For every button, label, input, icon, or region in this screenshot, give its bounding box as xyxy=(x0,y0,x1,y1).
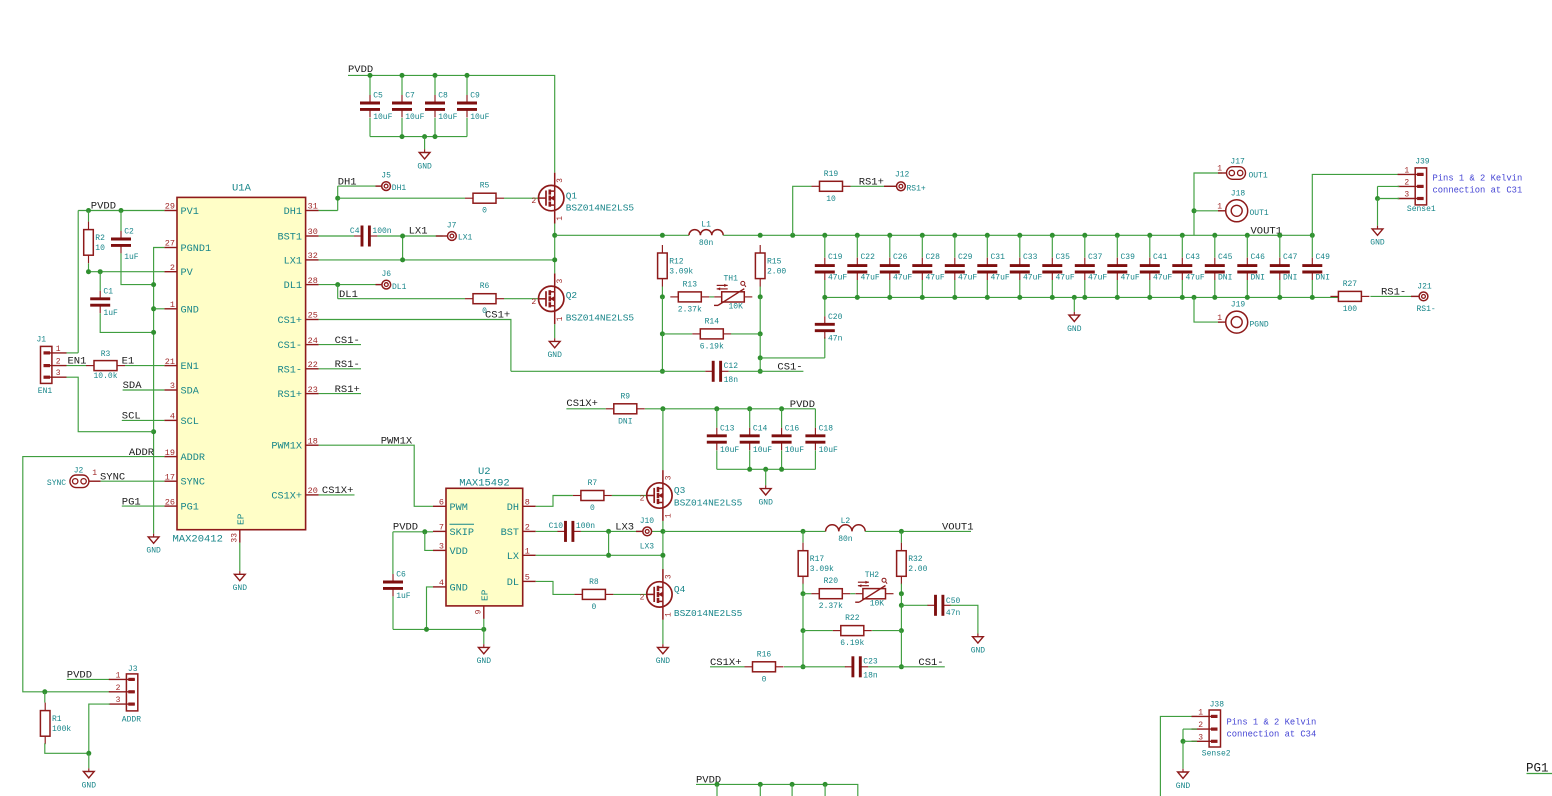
capacitor C39 47uF xyxy=(1107,253,1140,283)
wire R20 to TH2 xyxy=(850,593,855,595)
svg-text:OUT1: OUT1 xyxy=(1249,171,1268,180)
svg-text:1: 1 xyxy=(556,316,565,321)
wire PG1 stub xyxy=(122,505,165,507)
resistor R14 6.19k xyxy=(692,317,731,351)
wire C28 top lead xyxy=(921,235,923,257)
wire Q1 source to Q2 drain (switch node) xyxy=(554,224,556,274)
wire LX1 node to J7 xyxy=(403,235,443,237)
wire PVDD down to J1 pin1 xyxy=(77,211,79,353)
svg-text:R13: R13 xyxy=(683,280,698,289)
svg-text:J2: J2 xyxy=(74,467,84,476)
wire Q2 source to ground xyxy=(554,324,556,338)
junction R2 top xyxy=(86,208,91,213)
wire C16 top lead xyxy=(781,409,783,428)
wire PVDD to U2 pin7 xyxy=(393,531,433,533)
junction C47 top xyxy=(1277,233,1282,238)
svg-text:2: 2 xyxy=(56,358,61,367)
wire J39 pin2 riser xyxy=(1377,186,1379,198)
wire R32 to TH2 row xyxy=(900,584,902,594)
svg-text:0: 0 xyxy=(590,504,595,513)
ground below R1/J3 xyxy=(82,768,97,790)
svg-text:2: 2 xyxy=(640,593,645,602)
wire R2 top lead xyxy=(88,211,90,222)
wire C9 bottom lead xyxy=(466,118,468,137)
capacitor C19 47uF xyxy=(815,253,848,283)
svg-text:TH2: TH2 xyxy=(865,571,880,580)
wire C1 top lead xyxy=(99,272,101,291)
wire R32 top lead xyxy=(900,531,902,542)
wire C16 bottom lead xyxy=(781,450,783,469)
svg-text:C10: C10 xyxy=(549,522,564,531)
connector J19 pad xyxy=(1226,311,1248,333)
svg-text:3: 3 xyxy=(1404,191,1409,200)
wire U2 gnd rail xyxy=(393,628,484,630)
resistor R6 0 xyxy=(465,282,504,316)
svg-text:2: 2 xyxy=(1404,178,1409,187)
wire C4 to LX1 node xyxy=(377,235,402,237)
svg-text:GND: GND xyxy=(971,647,986,656)
wire PG1 stub (bottom right) xyxy=(1527,773,1552,775)
wire R27 to J21 xyxy=(1370,295,1418,297)
svg-text:80n: 80n xyxy=(838,535,853,544)
connector J21 pad xyxy=(1419,292,1428,301)
svg-text:U2: U2 xyxy=(478,466,491,478)
resistor R12 3.09k xyxy=(658,245,694,287)
junction xyxy=(422,134,427,139)
wire RS1- stub xyxy=(319,368,361,370)
wire J38 pin3 xyxy=(1183,740,1197,742)
wire bottom stub xyxy=(824,784,826,796)
junction xyxy=(855,295,860,300)
junction xyxy=(747,467,752,472)
svg-text:VDD: VDD xyxy=(450,547,468,558)
wire VOUT1 top rail xyxy=(825,234,1313,236)
wire C20 bottom to R15 col xyxy=(760,357,825,359)
wire C1 bottom to PGND1 bus xyxy=(100,313,153,332)
svg-text:5: 5 xyxy=(525,573,530,583)
svg-text:J10: J10 xyxy=(640,517,655,526)
svg-text:DH: DH xyxy=(507,503,519,514)
svg-text:BSZ014NE2LS5: BSZ014NE2LS5 xyxy=(566,313,635,324)
wire C45 top lead xyxy=(1214,235,1216,257)
wire C47 top lead xyxy=(1279,235,1281,257)
svg-text:1: 1 xyxy=(1404,166,1409,175)
svg-text:GND: GND xyxy=(417,162,432,171)
capacitor C22 47uF xyxy=(847,253,880,283)
junction C23 left xyxy=(801,664,806,669)
svg-text:4: 4 xyxy=(439,578,444,588)
resistor R16 0 xyxy=(745,650,784,684)
resistor R20 2.37k xyxy=(811,577,850,611)
wire C5..C9 bottom rail xyxy=(370,136,467,138)
svg-text:GND: GND xyxy=(547,351,562,360)
svg-text:DH1: DH1 xyxy=(284,207,302,218)
svg-text:DNI: DNI xyxy=(1218,274,1232,283)
capacitor C8 10uF xyxy=(425,92,458,123)
wire C13 bottom lead xyxy=(716,450,718,469)
svg-text:30: 30 xyxy=(308,227,318,237)
capacitor C7 10uF xyxy=(392,92,425,123)
svg-text:6.19k: 6.19k xyxy=(840,639,864,648)
wire U2 LX to switch node 2 xyxy=(536,554,663,556)
wire CS1- stub xyxy=(319,344,361,346)
svg-text:C1: C1 xyxy=(103,287,113,296)
wire DH1 label to J5 xyxy=(338,185,382,187)
svg-text:29: 29 xyxy=(165,202,175,212)
capacitor C14 10uF xyxy=(740,424,773,455)
wire PVDD to J3 pin1 xyxy=(67,678,110,680)
connector J17 pads xyxy=(1227,167,1246,180)
wire R32 col C50-R22 xyxy=(900,605,902,630)
svg-text:RS1-: RS1- xyxy=(278,365,302,376)
wire C8 top lead xyxy=(434,75,436,95)
junction xyxy=(1180,295,1185,300)
svg-text:1: 1 xyxy=(664,612,673,617)
svg-text:20: 20 xyxy=(308,486,318,496)
wire C35 top lead xyxy=(1051,235,1053,257)
junction Q3 drain tee xyxy=(660,406,665,411)
svg-text:R22: R22 xyxy=(845,614,860,623)
wire C39 top lead xyxy=(1116,235,1118,257)
svg-text:R27: R27 xyxy=(1343,280,1358,289)
capacitor C12 18n xyxy=(705,361,738,385)
svg-text:Q2: Q2 xyxy=(566,290,578,301)
svg-text:C4: C4 xyxy=(350,227,360,236)
svg-text:J3: J3 xyxy=(128,665,138,674)
svg-text:GND: GND xyxy=(1176,782,1191,791)
wire C28 bottom lead xyxy=(921,280,923,297)
capacitor C6 1uF xyxy=(383,571,411,602)
svg-text:R20: R20 xyxy=(824,577,839,586)
wire J18 red stub xyxy=(1218,210,1226,212)
junction xyxy=(920,295,925,300)
connector J38 Sense2 xyxy=(1192,700,1231,758)
svg-text:3: 3 xyxy=(664,574,673,579)
svg-text:R14: R14 xyxy=(705,317,720,326)
svg-text:47uF: 47uF xyxy=(991,274,1010,283)
svg-text:1: 1 xyxy=(1198,708,1203,717)
svg-text:18: 18 xyxy=(308,436,318,446)
svg-text:C18: C18 xyxy=(819,424,834,433)
svg-text:18n: 18n xyxy=(863,671,878,680)
wire SYNC to U1A pin17 xyxy=(101,480,165,482)
svg-text:C8: C8 xyxy=(438,92,448,101)
transistor Q4 BSZ014NE2LS5 xyxy=(640,569,743,620)
svg-text:47n: 47n xyxy=(946,609,961,618)
inductor L2 80n xyxy=(826,517,866,544)
svg-text:2.00: 2.00 xyxy=(767,268,786,277)
svg-text:47uF: 47uF xyxy=(1056,274,1075,283)
junction C39 top xyxy=(1115,233,1120,238)
svg-text:24: 24 xyxy=(308,336,318,346)
wire J39 gnd stem xyxy=(1377,199,1379,226)
svg-text:3: 3 xyxy=(170,381,175,391)
transistor Q1 BSZ014NE2LS5 xyxy=(531,173,634,224)
junction R13 left xyxy=(660,294,665,299)
wire R22 left xyxy=(803,630,833,632)
ground below capacitor bank xyxy=(1067,312,1082,334)
wire C49 bottom lead xyxy=(1311,280,1313,297)
wire C49 top lead xyxy=(1311,235,1313,257)
svg-text:MAX15492: MAX15492 xyxy=(459,477,509,489)
svg-text:LX: LX xyxy=(507,552,519,563)
svg-text:GND: GND xyxy=(1370,239,1385,248)
svg-text:10uF: 10uF xyxy=(470,113,489,122)
junction xyxy=(433,134,438,139)
capacitor C29 47uF xyxy=(945,253,978,283)
svg-text:R9: R9 xyxy=(620,392,630,401)
wire C33 bottom lead xyxy=(1019,280,1021,297)
svg-text:RS1+: RS1+ xyxy=(278,390,302,401)
junction bus C2 xyxy=(151,282,156,287)
wire R32 col to C50 tee xyxy=(900,594,902,606)
svg-text:SCL: SCL xyxy=(122,411,141,423)
wire C22 bottom lead xyxy=(856,280,858,297)
svg-text:1uF: 1uF xyxy=(396,592,411,601)
junction PVDD rail xyxy=(433,73,438,78)
svg-text:R8: R8 xyxy=(589,578,599,587)
svg-text:R3: R3 xyxy=(101,350,111,359)
wire C12 to CS1- label xyxy=(729,370,804,372)
junction xyxy=(715,782,720,787)
svg-text:100: 100 xyxy=(1343,305,1358,314)
wire L2 to VOUT1 label xyxy=(865,530,971,532)
svg-text:R1: R1 xyxy=(52,715,62,724)
junction C46 top xyxy=(1245,233,1250,238)
op-amp U1A MAX20412 controller xyxy=(164,183,318,546)
wire C26 top lead xyxy=(889,235,891,257)
svg-text:C28: C28 xyxy=(926,253,941,262)
wire R12 col R13-R14 xyxy=(661,297,663,334)
wire VOUT bottom rail xyxy=(825,296,1339,298)
svg-text:C37: C37 xyxy=(1088,253,1103,262)
svg-text:26: 26 xyxy=(165,497,175,507)
junction C37 top xyxy=(1082,233,1087,238)
svg-text:47uF: 47uF xyxy=(1186,274,1205,283)
junction gnd rail a xyxy=(424,627,429,632)
wire GND bus to symbol xyxy=(153,432,155,534)
wire C19 top lead xyxy=(824,235,826,257)
wire C35 bottom lead xyxy=(1051,280,1053,297)
capacitor C5 10uF xyxy=(360,92,393,123)
svg-text:GND: GND xyxy=(450,583,468,594)
svg-text:C50: C50 xyxy=(946,597,961,606)
connector J39 Sense1 xyxy=(1398,158,1436,214)
ground below C50 xyxy=(971,634,986,656)
svg-text:27: 27 xyxy=(165,239,175,249)
svg-text:L2: L2 xyxy=(841,517,851,526)
svg-text:C45: C45 xyxy=(1218,253,1233,262)
wire J38 pin2 xyxy=(1183,728,1197,730)
wire C41 bottom lead xyxy=(1149,280,1151,297)
svg-text:10uF: 10uF xyxy=(753,446,772,455)
svg-text:100n: 100n xyxy=(372,227,391,236)
svg-text:21: 21 xyxy=(165,357,175,367)
wire C18 bottom lead xyxy=(814,450,816,469)
svg-text:C23: C23 xyxy=(863,658,878,667)
junction xyxy=(952,295,957,300)
resistor R9 DNI xyxy=(606,392,645,426)
junction xyxy=(887,295,892,300)
svg-text:47uF: 47uF xyxy=(893,274,912,283)
wire R20 left xyxy=(803,593,811,595)
svg-text:2: 2 xyxy=(531,197,536,206)
wire C26 bottom lead xyxy=(889,280,891,297)
svg-text:RS1-: RS1- xyxy=(335,359,360,371)
wire PWM1X U1A to U2 xyxy=(319,445,433,506)
wire CS1X+ to R16 xyxy=(710,666,745,668)
junction LX3 b xyxy=(606,553,611,558)
svg-text:25: 25 xyxy=(308,311,318,321)
connector J1 EN1 xyxy=(37,336,67,396)
wire R1 bottom to gnd node xyxy=(45,743,89,753)
svg-text:RS1-: RS1- xyxy=(1381,286,1406,298)
junction C16 top xyxy=(779,406,784,411)
wire Q4 source to ground xyxy=(662,620,664,644)
svg-text:CS1X+: CS1X+ xyxy=(322,485,354,497)
wire CS1+ to C12 xyxy=(511,370,705,372)
junction xyxy=(985,295,990,300)
svg-text:47uF: 47uF xyxy=(1088,274,1107,283)
wire C31 bottom lead xyxy=(986,280,988,297)
svg-text:GND: GND xyxy=(181,305,199,316)
wire R17 col R22-C23 xyxy=(802,631,804,667)
wire PVDD to U1A pin29 xyxy=(78,210,164,212)
svg-text:Sense2: Sense2 xyxy=(1202,750,1231,759)
connector J2 pads xyxy=(70,475,89,488)
junction R22 left xyxy=(801,628,806,633)
svg-text:1uF: 1uF xyxy=(103,309,118,318)
svg-text:47n: 47n xyxy=(828,335,843,344)
wire J10 red stub xyxy=(636,530,643,532)
svg-text:1uF: 1uF xyxy=(124,253,139,262)
svg-text:PGND1: PGND1 xyxy=(181,244,212,255)
junction bus GND pin xyxy=(151,306,156,311)
capacitor C1 1uF xyxy=(90,287,118,318)
ground below Q4 xyxy=(656,644,671,666)
junction C2 top xyxy=(119,208,124,213)
svg-text:100n: 100n xyxy=(576,522,595,531)
svg-text:7: 7 xyxy=(439,523,444,533)
svg-text:RS1+: RS1+ xyxy=(907,184,926,193)
junction C35 top xyxy=(1050,233,1055,238)
junction gnd stem xyxy=(1072,295,1077,300)
svg-text:2.00: 2.00 xyxy=(908,565,927,574)
wire bottom stub xyxy=(716,784,718,796)
junction C19 top xyxy=(822,233,827,238)
junction C20 tee xyxy=(758,355,763,360)
svg-text:GND: GND xyxy=(82,781,97,790)
svg-text:R5: R5 xyxy=(480,182,490,191)
connector J5 pad xyxy=(382,182,391,191)
junction R15 top xyxy=(758,233,763,238)
junction xyxy=(1212,295,1217,300)
svg-text:C41: C41 xyxy=(1153,253,1168,262)
junction R14 left xyxy=(660,331,665,336)
wire R13 to TH1 xyxy=(709,296,714,298)
svg-text:10K: 10K xyxy=(870,600,885,609)
svg-text:TH1: TH1 xyxy=(723,274,738,283)
svg-text:J1: J1 xyxy=(37,336,47,345)
svg-text:2.37k: 2.37k xyxy=(678,305,702,314)
wire C39 bottom lead xyxy=(1116,280,1118,297)
svg-text:10.0k: 10.0k xyxy=(93,372,117,381)
junction C20 top tee xyxy=(822,295,827,300)
wire C10 to LX3 node xyxy=(581,530,609,532)
wire J1 pin3 down to gnd bus tee xyxy=(67,377,154,432)
svg-text:1: 1 xyxy=(116,671,121,680)
svg-text:C12: C12 xyxy=(724,362,739,371)
junction J3 gnd node xyxy=(86,751,91,756)
svg-text:EP: EP xyxy=(480,589,491,601)
svg-text:R17: R17 xyxy=(810,555,825,564)
wire U1A pin32 LX1 to switch node xyxy=(319,259,555,261)
svg-text:10uF: 10uF xyxy=(819,446,838,455)
svg-text:3: 3 xyxy=(556,279,565,284)
junction xyxy=(1115,295,1120,300)
wire ADDR to J3 pin2 xyxy=(23,457,165,692)
wire bottom PVDD rail xyxy=(696,784,858,796)
wire U2 BST to C10 xyxy=(536,530,558,532)
wire C43 top lead xyxy=(1181,235,1183,257)
wire U1A pin28 to J6 xyxy=(319,284,382,286)
wire R16 to C23 xyxy=(784,666,846,668)
ground below J38 xyxy=(1176,769,1191,791)
capacitor C10 100n xyxy=(549,521,596,542)
svg-text:C6: C6 xyxy=(396,571,406,580)
connector J12 pad xyxy=(897,182,906,191)
wire LX3 to switch node 2 xyxy=(609,530,663,532)
svg-text:1: 1 xyxy=(1217,314,1222,323)
junction C1 top xyxy=(98,269,103,274)
wire tee to U2 pin3 VDD xyxy=(425,532,433,551)
wire C9 top lead xyxy=(466,75,468,95)
wire R32 col R22-C23 xyxy=(900,631,902,667)
svg-text:22: 22 xyxy=(308,360,318,370)
svg-text:PV1: PV1 xyxy=(181,207,199,218)
wire C14 top lead xyxy=(749,409,751,428)
svg-text:Sense1: Sense1 xyxy=(1407,205,1436,214)
svg-text:2.37k: 2.37k xyxy=(819,602,843,611)
svg-text:C49: C49 xyxy=(1316,253,1331,262)
thermistor TH2 10K xyxy=(855,571,893,608)
junction U2 vdd tee xyxy=(422,529,427,534)
resistor R8 0 xyxy=(574,578,613,612)
junction xyxy=(779,467,784,472)
junction C45 top xyxy=(1212,233,1217,238)
svg-text:Q1: Q1 xyxy=(566,191,578,202)
op-amp U2 MAX15492 driver xyxy=(433,466,536,619)
svg-text:C22: C22 xyxy=(861,253,876,262)
wire RS1+ stub xyxy=(319,393,361,395)
wire R5 to Q1 gate xyxy=(504,197,539,199)
wire C29 bottom lead xyxy=(954,280,956,297)
wire J7 red stub xyxy=(436,235,448,237)
svg-text:GND: GND xyxy=(656,657,671,666)
wire C8 bottom lead xyxy=(434,118,436,137)
capacitor C18 10uF xyxy=(805,424,838,455)
svg-text:1: 1 xyxy=(556,216,565,221)
connector J10 pad xyxy=(643,527,652,536)
svg-text:3.09k: 3.09k xyxy=(810,565,834,574)
capacitor C16 10uF xyxy=(772,424,805,455)
wire R22 right xyxy=(872,630,901,632)
svg-text:LX3: LX3 xyxy=(640,543,655,552)
svg-text:31: 31 xyxy=(308,202,318,212)
svg-text:C35: C35 xyxy=(1056,253,1071,262)
svg-text:C47: C47 xyxy=(1283,253,1298,262)
wire J19 red stub xyxy=(1218,321,1226,323)
